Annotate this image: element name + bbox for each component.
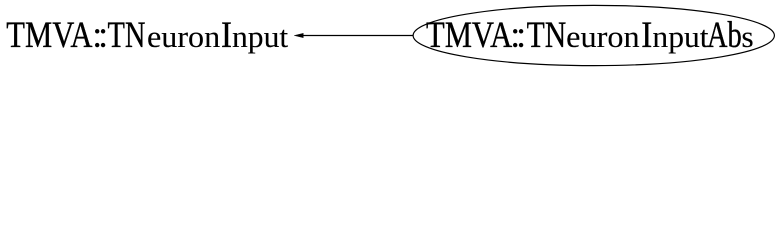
svg-text:TMVA: TMVA xyxy=(426,14,513,55)
svg-text:euron: euron xyxy=(566,19,640,54)
ellipse node TMVA::TNeuronInputAbs xyxy=(413,5,774,65)
svg-text:s: s xyxy=(741,19,753,54)
ellipse node label TMVA::TNeuronInputAbs xyxy=(426,14,754,55)
svg-text::: : xyxy=(516,14,526,55)
svg-text:Ab: Ab xyxy=(707,14,742,55)
svg-text:I: I xyxy=(221,14,232,55)
svg-text:I: I xyxy=(641,14,652,55)
svg-text:TN: TN xyxy=(108,14,146,55)
arrowhead pointing to base class xyxy=(294,33,303,37)
svg-text:nput: nput xyxy=(652,19,709,54)
svg-text:TN: TN xyxy=(527,14,567,55)
wire inheritance arrow shaft xyxy=(303,35,413,37)
svg-text:TMVA: TMVA xyxy=(6,14,93,55)
svg-text:nput: nput xyxy=(232,19,289,54)
svg-text:euron: euron xyxy=(147,19,221,54)
node label TMVA::TNeuronInput (base class, plain text) xyxy=(6,14,288,55)
